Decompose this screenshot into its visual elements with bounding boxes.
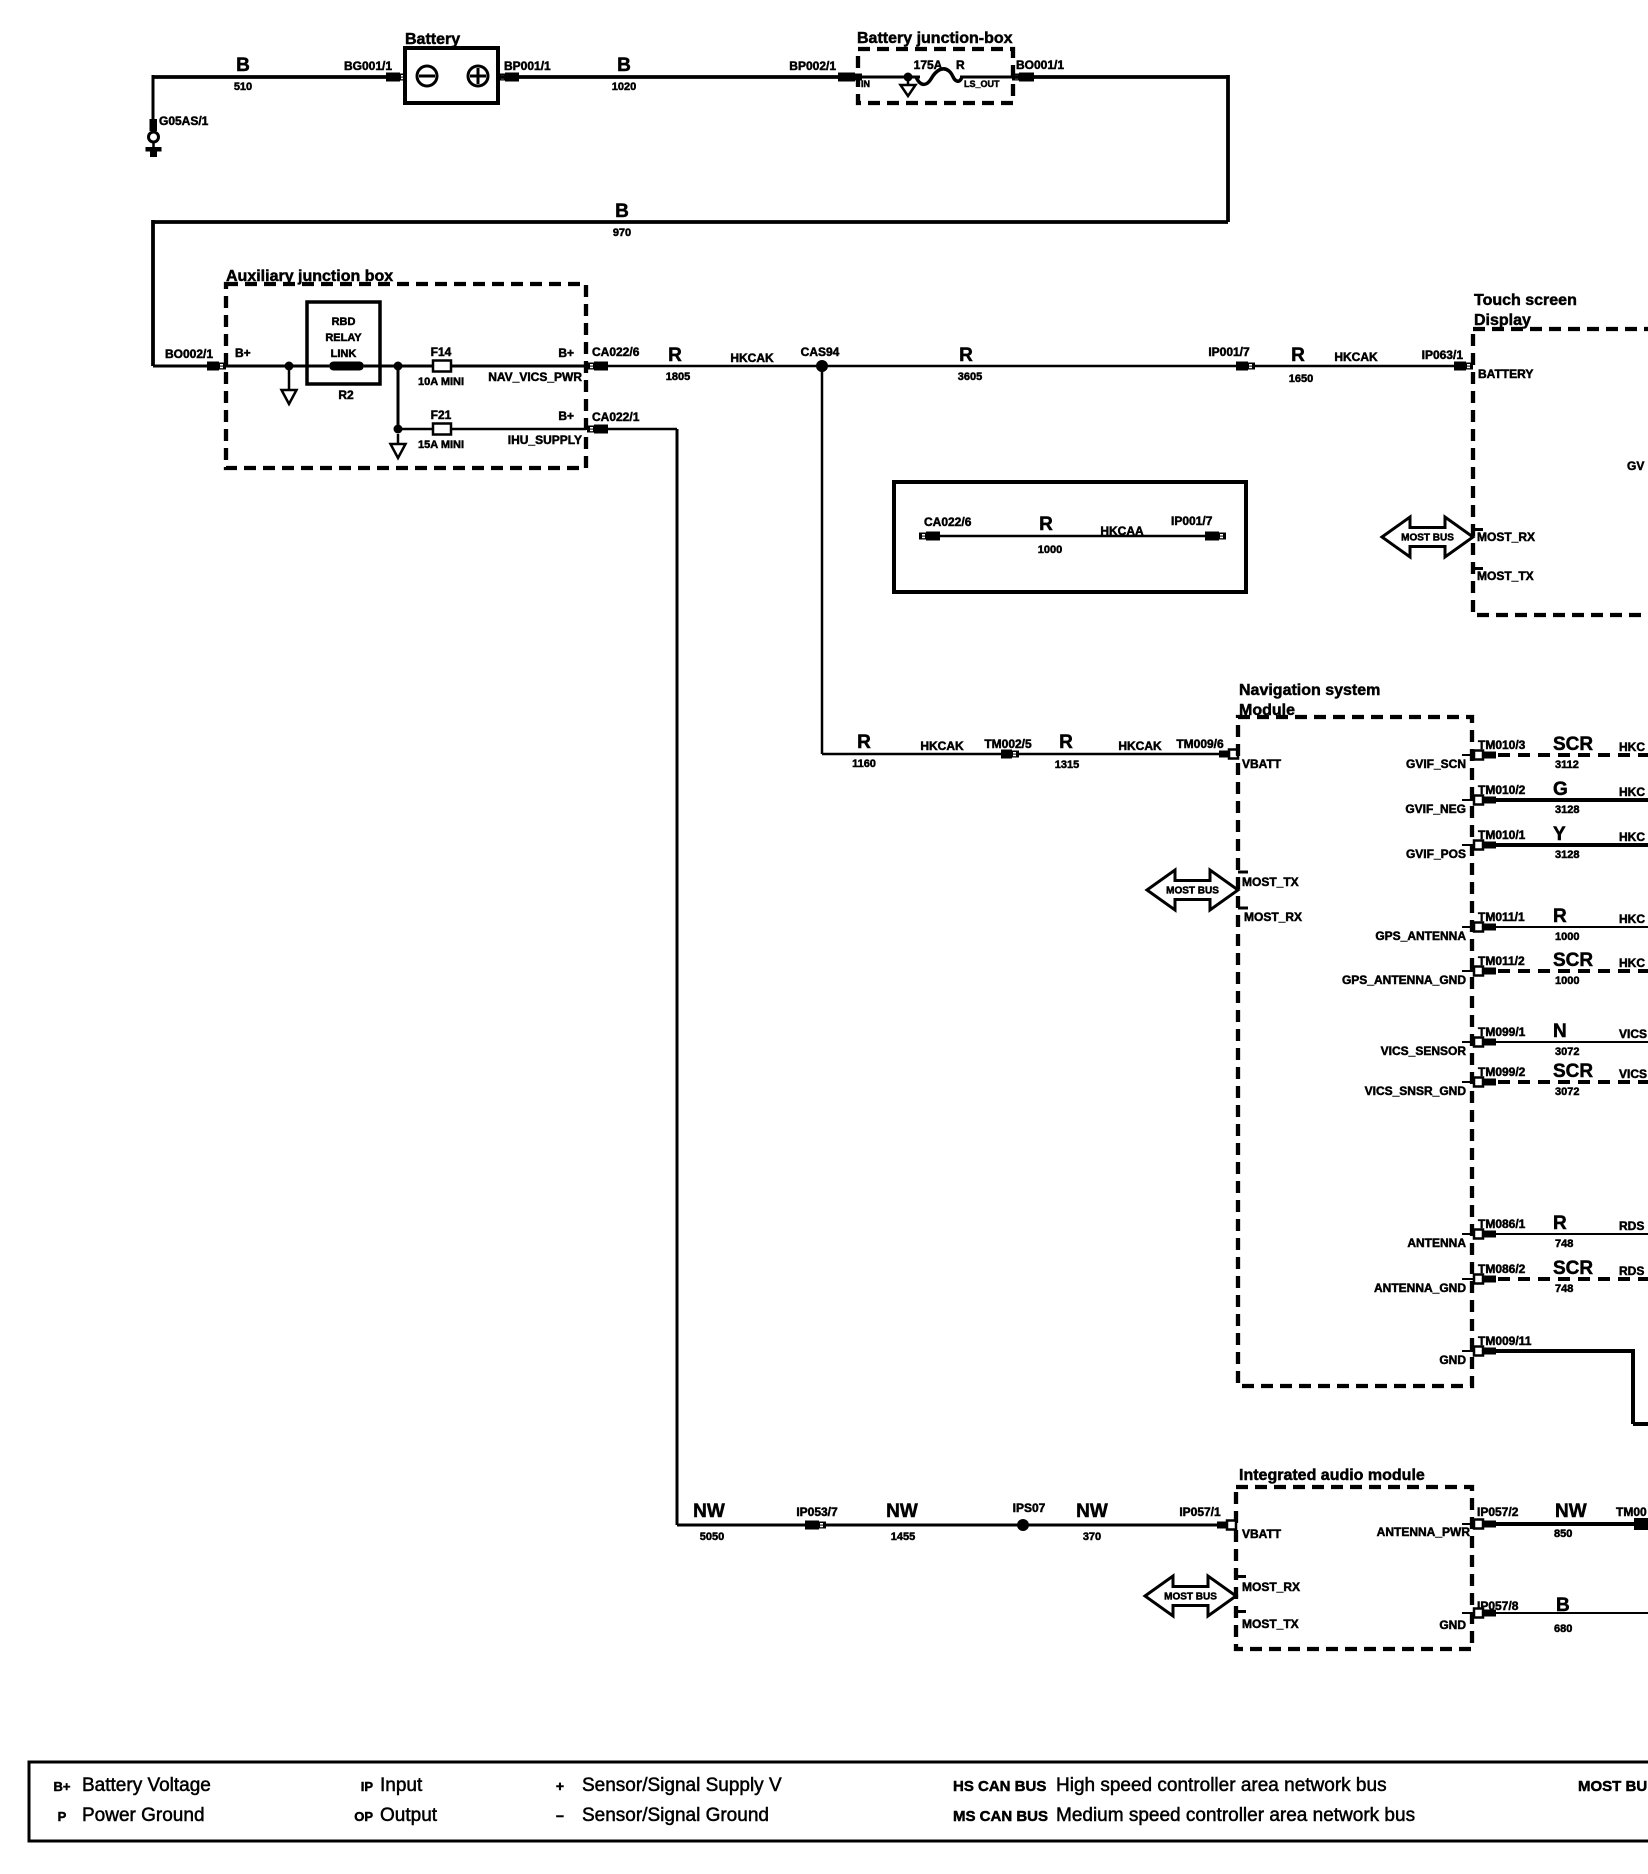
svg-text:B: B — [236, 55, 250, 76]
svg-text:GND: GND — [1439, 1353, 1466, 1367]
svg-text:HKCAK: HKCAK — [920, 739, 964, 753]
svg-text:GVIF_POS: GVIF_POS — [1406, 847, 1466, 861]
svg-text:TM086/1: TM086/1 — [1478, 1217, 1526, 1231]
svg-text:3128: 3128 — [1555, 849, 1579, 861]
svg-text:R2: R2 — [338, 388, 354, 402]
svg-text:IP057/2: IP057/2 — [1477, 1505, 1519, 1519]
svg-text:−: − — [556, 1808, 564, 1824]
svg-text:510: 510 — [234, 81, 252, 93]
svg-text:RDS: RDS — [1619, 1219, 1644, 1233]
svg-text:RDS: RDS — [1619, 1264, 1644, 1278]
svg-text:IP001/7: IP001/7 — [1171, 514, 1213, 528]
svg-text:IP057/1: IP057/1 — [1179, 1505, 1221, 1519]
svg-text:850: 850 — [1554, 1528, 1572, 1540]
svg-text:TM099/2: TM099/2 — [1478, 1065, 1526, 1079]
svg-text:MOST_RX: MOST_RX — [1244, 910, 1302, 924]
svg-text:CA022/1: CA022/1 — [592, 410, 640, 424]
svg-text:IPS07: IPS07 — [1013, 1501, 1046, 1515]
svg-text:748: 748 — [1555, 1238, 1573, 1250]
svg-text:1315: 1315 — [1055, 759, 1079, 771]
svg-text:+: + — [556, 1778, 564, 1794]
svg-text:HKC: HKC — [1619, 830, 1645, 844]
svg-text:HS CAN BUS: HS CAN BUS — [953, 1778, 1046, 1795]
svg-text:1020: 1020 — [612, 81, 636, 93]
svg-text:G05AS/1: G05AS/1 — [159, 114, 209, 128]
svg-text:VICS_SENSOR: VICS_SENSOR — [1381, 1044, 1467, 1058]
svg-text:RELAY: RELAY — [325, 332, 362, 344]
svg-text:BG001/1: BG001/1 — [344, 59, 392, 73]
svg-text:TM010/3: TM010/3 — [1478, 738, 1526, 752]
svg-text:IP: IP — [361, 1779, 374, 1794]
svg-text:Navigation system: Navigation system — [1239, 682, 1380, 699]
svg-text:HKC: HKC — [1619, 912, 1645, 926]
svg-text:TM099/1: TM099/1 — [1478, 1025, 1526, 1039]
svg-text:B+: B+ — [235, 346, 251, 360]
svg-text:HKCAK: HKCAK — [1118, 739, 1162, 753]
svg-text:B+: B+ — [558, 409, 574, 423]
svg-text:Y: Y — [1553, 824, 1566, 845]
svg-text:OP: OP — [354, 1809, 373, 1824]
svg-text:IP001/7: IP001/7 — [1208, 345, 1250, 359]
svg-text:LS_OUT: LS_OUT — [964, 79, 1000, 89]
svg-text:Power Ground: Power Ground — [82, 1805, 205, 1826]
svg-text:10A MINI: 10A MINI — [418, 376, 464, 388]
svg-text:TM011/1: TM011/1 — [1478, 910, 1525, 924]
svg-text:GND: GND — [1439, 1618, 1466, 1632]
svg-text:VBATT: VBATT — [1242, 1527, 1282, 1541]
svg-text:Battery: Battery — [405, 31, 460, 48]
svg-text:High speed controller area net: High speed controller area network bus — [1056, 1775, 1387, 1796]
svg-text:748: 748 — [1555, 1283, 1573, 1295]
svg-text:MOST_RX: MOST_RX — [1242, 1580, 1300, 1594]
svg-text:MOST BUS: MOST BUS — [1401, 533, 1454, 544]
svg-text:CAS94: CAS94 — [801, 345, 840, 359]
svg-text:3072: 3072 — [1555, 1046, 1579, 1058]
svg-text:P: P — [58, 1809, 67, 1824]
svg-text:BATTERY: BATTERY — [1478, 367, 1533, 381]
svg-text:1455: 1455 — [891, 1531, 915, 1543]
svg-text:G: G — [1553, 779, 1568, 800]
svg-text:TM011/2: TM011/2 — [1478, 954, 1525, 968]
svg-text:VICS_SNSR_GND: VICS_SNSR_GND — [1365, 1084, 1467, 1098]
svg-text:F14: F14 — [431, 345, 452, 359]
svg-text:ANTENNA_PWR: ANTENNA_PWR — [1377, 1525, 1471, 1539]
svg-text:HKCAK: HKCAK — [730, 351, 774, 365]
svg-text:3112: 3112 — [1555, 759, 1579, 771]
svg-text:1805: 1805 — [666, 371, 690, 383]
svg-text:TM086/2: TM086/2 — [1478, 1262, 1526, 1276]
svg-text:NW: NW — [886, 1501, 918, 1522]
svg-text:F21: F21 — [431, 408, 452, 422]
svg-text:NW: NW — [1076, 1501, 1108, 1522]
svg-text:GPS_ANTENNA: GPS_ANTENNA — [1375, 929, 1466, 943]
svg-text:CA022/6: CA022/6 — [592, 345, 640, 359]
svg-text:R: R — [1553, 1213, 1567, 1234]
svg-text:Medium speed controller area n: Medium speed controller area network bus — [1056, 1805, 1415, 1826]
svg-text:Output: Output — [380, 1805, 438, 1826]
svg-text:TM009/6: TM009/6 — [1176, 737, 1224, 751]
svg-text:GVIF_NEG: GVIF_NEG — [1405, 802, 1466, 816]
svg-text:R: R — [1039, 514, 1053, 535]
svg-text:1160: 1160 — [852, 758, 876, 770]
svg-text:SCR: SCR — [1553, 734, 1593, 755]
svg-text:ANTENNA: ANTENNA — [1407, 1236, 1466, 1250]
svg-text:LINK: LINK — [331, 348, 357, 360]
svg-text:B: B — [617, 55, 631, 76]
svg-text:R: R — [1291, 345, 1305, 366]
svg-text:HKCAK: HKCAK — [1334, 350, 1378, 364]
svg-text:SCR: SCR — [1553, 950, 1593, 971]
svg-text:Sensor/Signal Ground: Sensor/Signal Ground — [582, 1805, 769, 1826]
svg-text:NW: NW — [693, 1501, 725, 1522]
svg-text:R: R — [857, 732, 871, 753]
svg-text:R: R — [668, 345, 682, 366]
svg-text:TM010/2: TM010/2 — [1478, 783, 1526, 797]
svg-text:B: B — [1556, 1595, 1570, 1616]
svg-text:VICS: VICS — [1619, 1027, 1647, 1041]
svg-text:VBATT: VBATT — [1242, 757, 1282, 771]
svg-text:GVIF_SCN: GVIF_SCN — [1406, 757, 1466, 771]
svg-text:Battery Voltage: Battery Voltage — [82, 1775, 211, 1796]
svg-text:1000: 1000 — [1555, 931, 1579, 943]
svg-text:680: 680 — [1554, 1623, 1572, 1635]
svg-text:SCR: SCR — [1553, 1258, 1593, 1279]
svg-text:N: N — [1553, 1021, 1567, 1042]
svg-text:IHU_SUPPLY: IHU_SUPPLY — [508, 433, 582, 447]
svg-text:1650: 1650 — [1289, 373, 1313, 385]
svg-text:BO002/1: BO002/1 — [165, 347, 213, 361]
svg-text:MOST BU: MOST BU — [1578, 1778, 1647, 1795]
svg-text:3072: 3072 — [1555, 1086, 1579, 1098]
svg-text:TM002/5: TM002/5 — [984, 737, 1032, 751]
svg-text:370: 370 — [1083, 1531, 1101, 1543]
svg-text:GPS_ANTENNA_GND: GPS_ANTENNA_GND — [1342, 973, 1466, 987]
svg-text:CA022/6: CA022/6 — [924, 515, 972, 529]
svg-text:MOST_TX: MOST_TX — [1242, 875, 1299, 889]
svg-text:MOST_RX: MOST_RX — [1477, 530, 1535, 544]
svg-text:Display: Display — [1474, 312, 1531, 329]
svg-text:1000: 1000 — [1555, 975, 1579, 987]
svg-text:R: R — [956, 58, 965, 72]
svg-text:Integrated audio module: Integrated audio module — [1239, 1467, 1425, 1484]
svg-text:R: R — [959, 345, 973, 366]
svg-text:BO001/1: BO001/1 — [1016, 58, 1064, 72]
svg-text:R: R — [1553, 906, 1567, 927]
svg-text:3128: 3128 — [1555, 804, 1579, 816]
svg-text:5050: 5050 — [700, 1531, 724, 1543]
svg-text:IN: IN — [861, 79, 870, 89]
svg-text:RBD: RBD — [332, 316, 356, 328]
svg-text:BP001/1: BP001/1 — [504, 59, 551, 73]
svg-text:Touch screen: Touch screen — [1474, 292, 1577, 309]
svg-text:B+: B+ — [558, 346, 574, 360]
svg-text:1000: 1000 — [1038, 544, 1062, 556]
svg-text:GV: GV — [1627, 459, 1644, 473]
svg-text:Battery junction-box: Battery junction-box — [857, 30, 1013, 47]
svg-text:Input: Input — [380, 1775, 423, 1796]
svg-text:B+: B+ — [54, 1779, 71, 1794]
svg-text:15A MINI: 15A MINI — [418, 439, 464, 451]
svg-text:HKCAA: HKCAA — [1100, 524, 1144, 538]
svg-text:IP053/7: IP053/7 — [796, 1505, 838, 1519]
svg-text:970: 970 — [613, 227, 631, 239]
svg-text:Sensor/Signal Supply V: Sensor/Signal Supply V — [582, 1775, 782, 1796]
svg-text:TM00: TM00 — [1616, 1505, 1647, 1519]
svg-text:MOST BUS: MOST BUS — [1166, 886, 1219, 897]
svg-text:SCR: SCR — [1553, 1061, 1593, 1082]
svg-text:MOST BUS: MOST BUS — [1164, 1592, 1217, 1603]
svg-text:HKC: HKC — [1619, 740, 1645, 754]
svg-text:ANTENNA_GND: ANTENNA_GND — [1374, 1281, 1466, 1295]
svg-text:HKC: HKC — [1619, 956, 1645, 970]
svg-text:MS CAN BUS: MS CAN BUS — [953, 1808, 1048, 1825]
svg-text:BP002/1: BP002/1 — [789, 59, 836, 73]
svg-text:MOST_TX: MOST_TX — [1242, 1617, 1299, 1631]
svg-text:3605: 3605 — [958, 371, 982, 383]
svg-text:NW: NW — [1555, 1501, 1587, 1522]
svg-text:TM010/1: TM010/1 — [1478, 828, 1526, 842]
svg-text:VICS: VICS — [1619, 1067, 1647, 1081]
svg-text:NAV_VICS_PWR: NAV_VICS_PWR — [488, 370, 582, 384]
svg-text:R: R — [1059, 732, 1073, 753]
svg-text:MOST_TX: MOST_TX — [1477, 569, 1534, 583]
svg-text:B: B — [615, 201, 629, 222]
svg-text:IP063/1: IP063/1 — [1422, 348, 1464, 362]
svg-text:HKC: HKC — [1619, 785, 1645, 799]
svg-text:TM009/11: TM009/11 — [1478, 1334, 1532, 1348]
